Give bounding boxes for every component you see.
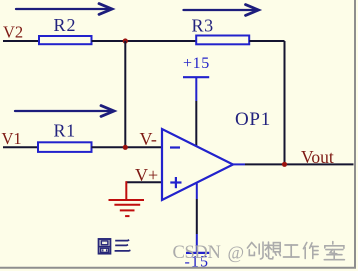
power bar -15 — [186, 252, 209, 254]
wire R3 to feedback corner — [249, 40, 284, 42]
watermark at-sign — [228, 243, 245, 263]
op-amp V- supply pin stub — [196, 184, 198, 200]
watermark glyph 创 — [247, 242, 263, 259]
label R1 — [54, 121, 76, 141]
junction node at R2/R3 — [123, 38, 128, 43]
op-amp minus sign — [170, 146, 180, 148]
wire V1 to R1 — [3, 146, 38, 148]
svg-text:OP1: OP1 — [235, 109, 271, 130]
current direction arrow above R2 — [16, 4, 112, 15]
wire R2 to R3 through node — [92, 40, 197, 42]
svg-text:V-: V- — [140, 129, 157, 149]
resistor R2 — [39, 36, 92, 44]
ground bar 1 — [109, 199, 145, 201]
resistor R1 — [38, 142, 92, 152]
svg-text:@: @ — [228, 243, 245, 263]
label OP1 — [235, 109, 271, 130]
power stub -15 — [196, 234, 198, 253]
op-amp OP1 triangle — [162, 129, 233, 200]
op-amp plus sign — [170, 177, 181, 188]
wire op-amp to -15 — [196, 199, 198, 234]
ground stem — [125, 181, 127, 200]
svg-text:CSDN: CSDN — [173, 243, 221, 263]
svg-text:+15: +15 — [183, 55, 210, 72]
screenshot border bottom — [0, 267, 356, 269]
svg-text:V2: V2 — [3, 23, 23, 42]
pin label V+ — [135, 165, 158, 185]
wire V2 to R2 — [3, 40, 39, 42]
svg-text:R3: R3 — [192, 16, 214, 36]
label R3 — [192, 16, 214, 36]
watermark glyph 室 — [324, 242, 344, 260]
ground bar 4 — [125, 215, 129, 217]
svg-text:Vout: Vout — [301, 147, 334, 167]
power stub +15 — [195, 77, 197, 101]
svg-text:V1: V1 — [2, 129, 22, 148]
watermark glyph 想 — [265, 242, 281, 259]
op-amp output pin stub — [233, 163, 245, 165]
net label Vout — [301, 147, 334, 167]
caption glyph 圖 — [99, 239, 111, 254]
label R2 — [54, 15, 77, 35]
wire R1 to V- input — [92, 146, 163, 148]
power label -15 — [185, 253, 210, 270]
net label V2 — [3, 23, 23, 42]
ground bar 3 — [120, 209, 135, 211]
current direction arrow above R3 — [184, 5, 259, 16]
wire node down to V- row — [124, 41, 126, 147]
ground bar 2 — [114, 204, 140, 206]
resistor R3 — [196, 36, 249, 45]
caption glyph 三 — [115, 240, 131, 251]
junction node at output — [282, 162, 287, 167]
net label V1 — [2, 129, 22, 148]
wire +15 to op-amp V+ supply pin — [195, 101, 197, 146]
svg-text:R1: R1 — [54, 121, 76, 141]
power bar +15 — [183, 76, 209, 78]
feedback wire down to output — [284, 41, 286, 164]
watermark glyph 作 — [303, 243, 318, 259]
wire output to Vout — [245, 163, 354, 165]
junction node at V- input — [123, 145, 128, 150]
watermark glyph 工 — [284, 245, 300, 257]
power label +15 — [183, 55, 210, 72]
watermark CSDN — [173, 243, 221, 263]
pin label V- — [140, 129, 157, 149]
current direction arrow above R1 — [15, 106, 114, 117]
wire ground to V+ input — [126, 181, 162, 183]
screenshot border right — [354, 0, 356, 268]
svg-text:R2: R2 — [54, 15, 77, 35]
